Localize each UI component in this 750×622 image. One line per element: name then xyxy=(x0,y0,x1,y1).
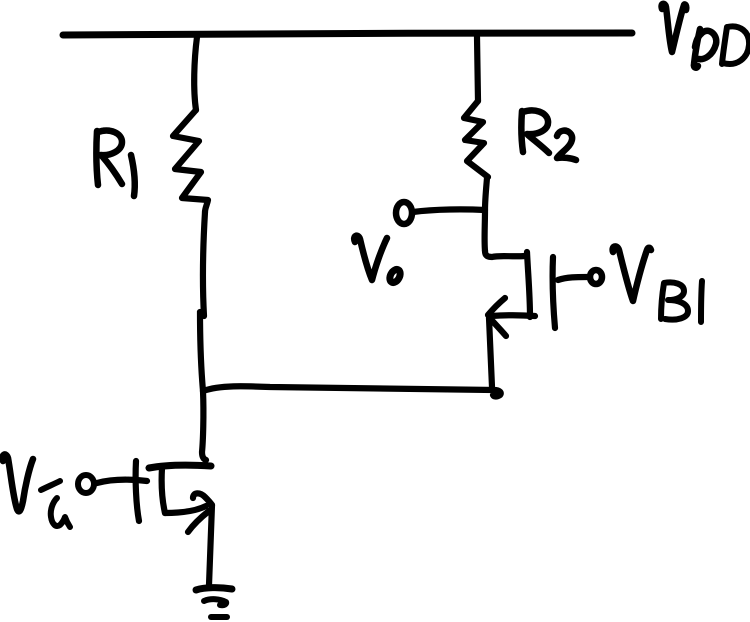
wire VDD to R1 xyxy=(194,37,197,110)
node VB1 terminal circle xyxy=(590,270,602,284)
wire node A down to M1 drain xyxy=(202,391,206,460)
transistor M1 channel xyxy=(162,468,165,513)
node Vo label V xyxy=(354,236,387,280)
transistor M1 drain bar xyxy=(149,465,211,468)
wire M2 gate to VB1 circle xyxy=(558,277,587,280)
transistor M2 drain bar xyxy=(485,251,525,257)
resistor R2 label R xyxy=(521,110,549,153)
node VDD label D1 xyxy=(694,29,716,68)
wire M1 gate to Vi circle xyxy=(97,480,147,483)
node VB1 label V xyxy=(613,246,651,301)
node Vo terminal circle xyxy=(396,202,412,224)
wire VDD to R2 xyxy=(477,37,478,101)
wire R1 to node A xyxy=(203,212,205,316)
ground bar 3 xyxy=(211,614,227,620)
transistor M2 channel xyxy=(527,252,530,317)
node Vi terminal circle xyxy=(78,475,94,493)
transistor M2 gate bar xyxy=(553,257,555,328)
transistor M2 arrow wing lower xyxy=(489,317,506,336)
wire VDD rail xyxy=(63,33,632,35)
wire M1 source to ground xyxy=(209,505,212,585)
transistor M2 source bar xyxy=(491,312,535,319)
transistor M1 source bar with arrow curve xyxy=(165,506,206,513)
resistor R1 label R xyxy=(96,131,122,185)
transistor M2 arrow wing upper xyxy=(488,298,505,315)
transistor M1 arrow hook xyxy=(193,493,212,505)
node VB1 label 1 xyxy=(701,281,702,322)
node VB1 label B xyxy=(661,282,688,319)
node Vo label o xyxy=(388,268,403,285)
node Vi label V xyxy=(3,454,33,511)
transistor M1 gate bar xyxy=(136,461,139,521)
ground bar 1 xyxy=(196,588,232,590)
node VDD label V xyxy=(662,4,687,52)
wire Vo node to terminal circle xyxy=(413,209,485,212)
transistor M1 arrow wing xyxy=(188,511,209,532)
wire node A to M2 source (bottom horizontal) xyxy=(203,386,501,396)
node Vi label i xyxy=(41,481,70,527)
resistor R2 xyxy=(464,101,488,177)
wire M2 source down to bottom wire xyxy=(489,318,492,387)
resistor R2 label 2 xyxy=(557,131,576,160)
node VDD label D2 xyxy=(722,26,749,64)
ground bar 2 xyxy=(204,599,226,605)
wire R2 to Vo node and M2 drain xyxy=(485,178,487,251)
resistor R1 label 1 xyxy=(131,155,135,196)
resistor R1 xyxy=(173,110,208,212)
